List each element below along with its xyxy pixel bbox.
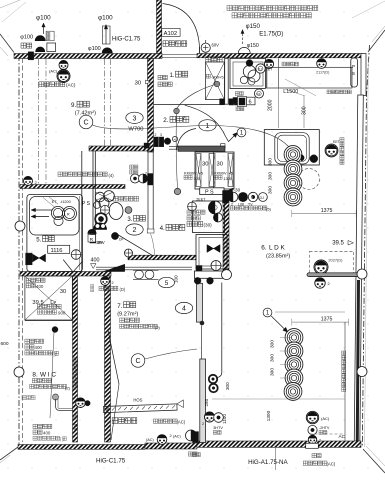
svg-text:30: 30 bbox=[60, 289, 66, 295]
right exterior wall band bbox=[354, 95, 363, 447]
ellipse 1 genkan bbox=[199, 120, 216, 131]
svg-text:R: R bbox=[67, 213, 70, 217]
svg-text:( ): ( ) bbox=[52, 351, 57, 356]
wic top wall bbox=[20, 272, 111, 277]
black square on band bbox=[196, 266, 202, 271]
shaft toilet west wall bbox=[92, 151, 94, 240]
right wall dark lower bbox=[357, 280, 358, 447]
vent dome 2 bbox=[36, 47, 45, 52]
toilet tank black dome bbox=[93, 223, 106, 230]
top-left boundary diagonals bbox=[0, 34, 14, 53]
kitchen black dot bbox=[246, 60, 253, 67]
bath shower circle big bbox=[51, 206, 64, 219]
svg-text:P S: P S bbox=[205, 190, 214, 196]
svg-text:φ100: φ100 bbox=[20, 35, 33, 41]
genkan west wall bbox=[148, 59, 154, 153]
svg-text:1116: 1116 bbox=[51, 248, 63, 254]
porch wall bbox=[157, 0, 162, 54]
washroom east wall bbox=[223, 191, 229, 272]
face big window bbox=[314, 260, 328, 274]
svg-text:1.: 1. bbox=[170, 73, 175, 79]
svg-text:3: 3 bbox=[133, 115, 137, 122]
toilet east wall bbox=[148, 152, 153, 232]
wic black dot leader bbox=[52, 327, 58, 333]
svg-text:1375: 1375 bbox=[321, 208, 333, 214]
svg-text:2: 2 bbox=[112, 281, 114, 285]
side panel label bbox=[327, 90, 331, 94]
svg-text:L1500: L1500 bbox=[283, 89, 298, 95]
genkan wall switches bbox=[154, 137, 159, 147]
conduit hall bbox=[176, 114, 177, 189]
face small right bbox=[308, 435, 316, 443]
cabinet strip left bbox=[196, 154, 201, 187]
kitchen sink circles bbox=[243, 65, 255, 77]
300 dim kitchen bbox=[303, 95, 305, 128]
svg-text:300: 300 bbox=[270, 340, 276, 348]
svg-text:2117(D): 2117(D) bbox=[316, 71, 330, 75]
svg-text:400: 400 bbox=[43, 430, 51, 435]
svg-text:KKB0V: KKB0V bbox=[184, 170, 197, 175]
svg-text:-t1200: -t1200 bbox=[60, 200, 71, 204]
vanity circle small bbox=[214, 213, 223, 222]
svg-text:38V: 38V bbox=[96, 241, 103, 245]
svg-text:3: 3 bbox=[160, 133, 162, 137]
washroom circles bottom bbox=[135, 270, 144, 279]
keshou makeita label bbox=[99, 286, 103, 290]
grid dots bbox=[8, 12, 9, 13]
svg-text:×5: ×5 bbox=[229, 170, 233, 175]
vanity unit box bbox=[193, 201, 225, 233]
bottom-left corner diagonal bbox=[0, 447, 18, 460]
toilet black dot DF bbox=[111, 232, 118, 239]
vanity mirror circle big bbox=[209, 201, 222, 214]
svg-text:φ100: φ100 bbox=[98, 15, 113, 22]
toilet north wall bbox=[89, 146, 154, 151]
entrance door leaf bbox=[199, 47, 201, 54]
svg-text:L08: L08 bbox=[238, 202, 244, 206]
wic chuudan label bbox=[22, 396, 26, 400]
svg-text:2: 2 bbox=[231, 202, 233, 206]
svg-text:×5: ×5 bbox=[199, 170, 203, 175]
svg-text:-30: -30 bbox=[234, 188, 241, 193]
svg-text:2000: 2000 bbox=[268, 99, 274, 111]
washroom cross circle west bbox=[188, 202, 197, 211]
bedroom7 door diagonal bbox=[108, 330, 119, 384]
face bottom bedroom7 bbox=[157, 435, 167, 445]
downlight ring 3 bbox=[284, 174, 302, 192]
cross circle on wall bbox=[125, 249, 133, 257]
entrance door swing arc bbox=[163, 4, 200, 48]
EET face kitchen right bbox=[325, 144, 338, 157]
S circle symbol bbox=[172, 136, 177, 141]
svg-text:60V: 60V bbox=[212, 43, 220, 48]
svg-text:DJ: DJ bbox=[260, 196, 265, 200]
grid bubble right low bbox=[357, 367, 367, 377]
svg-text:6.: 6. bbox=[261, 245, 267, 252]
island inner rounded square bbox=[275, 133, 309, 164]
genkan east wall bbox=[225, 58, 229, 104]
arrow from circled1 bbox=[271, 316, 286, 331]
cabinet outline bbox=[195, 152, 234, 189]
washer cross circle bbox=[211, 261, 221, 271]
circle C bedroom9 bbox=[79, 115, 93, 129]
1116 box label bbox=[48, 245, 70, 253]
wall end blob hall bbox=[148, 174, 154, 186]
cabinet strip right bbox=[228, 154, 233, 187]
shoe cabinet size label bbox=[207, 74, 211, 78]
genkan wall end blob bbox=[144, 143, 149, 148]
tenjou hokyou label bbox=[112, 418, 118, 424]
svg-text:4: 4 bbox=[182, 306, 186, 313]
switch below pair bbox=[233, 98, 238, 104]
svg-text:2EET: 2EET bbox=[196, 197, 206, 201]
svg-text:(D): (D) bbox=[120, 287, 126, 292]
circle 2HTV bbox=[308, 425, 317, 434]
phi100 arrow bbox=[43, 25, 45, 34]
svg-text:HiG-C1.75: HiG-C1.75 bbox=[96, 458, 126, 465]
face below rail bbox=[315, 278, 325, 288]
squiggle arrow 1 bbox=[225, 134, 236, 142]
vent dome 1 bbox=[35, 36, 45, 41]
S shelf lower block bbox=[33, 424, 37, 428]
svg-text:1300: 1300 bbox=[224, 177, 232, 181]
svg-text:5: 5 bbox=[165, 280, 169, 287]
svg-text:(30): (30) bbox=[204, 222, 213, 227]
toilet fixtures cluster bbox=[95, 192, 105, 202]
duct dashed pair bedroom9 bbox=[38, 59, 40, 185]
gray junction dot bbox=[214, 81, 220, 87]
leader from C to downlight bbox=[93, 125, 294, 154]
svg-text:DJ: DJ bbox=[258, 67, 262, 71]
bath unit outer box bbox=[27, 195, 83, 272]
wic east wall bbox=[73, 276, 78, 442]
kitchen DJ circle bbox=[256, 64, 265, 73]
leader C7 bbox=[145, 349, 197, 359]
svg-text:300: 300 bbox=[268, 158, 274, 166]
vent dome on wall bbox=[102, 48, 112, 53]
svg-text:P: P bbox=[352, 64, 355, 69]
shoe cabinet label bbox=[206, 57, 211, 62]
svg-text:600: 600 bbox=[1, 341, 9, 347]
duct arrow bbox=[105, 27, 107, 44]
wic tenjou label bbox=[32, 378, 36, 382]
svg-text:2: 2 bbox=[170, 434, 172, 438]
svg-text:φ100: φ100 bbox=[88, 46, 101, 52]
washroom bottom wall bbox=[194, 271, 229, 278]
right faint outer line bbox=[365, 60, 369, 447]
note text line1 bbox=[227, 6, 232, 11]
kitchen panel label bbox=[282, 62, 286, 66]
boxed 6 switch bbox=[247, 97, 256, 105]
kisetsu label bbox=[21, 43, 26, 48]
svg-text:2: 2 bbox=[202, 422, 204, 426]
hall-washroom door arc bbox=[177, 129, 197, 151]
face 3HTV black bbox=[205, 412, 215, 422]
svg-text:(AC): (AC) bbox=[173, 435, 182, 439]
circle C bedroom7 bbox=[131, 354, 145, 368]
face small AC bedroom9 corner bbox=[59, 61, 68, 70]
kisetsu kabe hokyou AC bottom bbox=[303, 461, 307, 465]
gray dot toilet bbox=[125, 207, 132, 214]
face 2 bedroom9 bottom bbox=[24, 177, 33, 186]
bracket below faces bbox=[306, 443, 319, 448]
toilet north label bbox=[113, 196, 118, 201]
1375 dim lower bbox=[292, 321, 349, 323]
cabinet top door bar bbox=[178, 146, 225, 151]
R box symbol bbox=[88, 229, 96, 233]
bath top wall bbox=[20, 185, 125, 189]
black boxes left toilet bbox=[90, 234, 96, 243]
grid bubble left mid bbox=[15, 221, 25, 231]
svg-text:DJ: DJ bbox=[256, 92, 260, 96]
svg-text:(2): (2) bbox=[155, 325, 161, 330]
label under black bbox=[192, 453, 196, 457]
1375 dim upper bbox=[292, 213, 356, 215]
toilet dark ring bbox=[95, 213, 107, 225]
LDK west wall lower bbox=[200, 359, 206, 443]
svg-text:6: 6 bbox=[249, 100, 252, 106]
black symbol bottom left ldk bbox=[193, 432, 199, 443]
circled 1 LDK bbox=[263, 308, 272, 317]
svg-text:2.: 2. bbox=[163, 117, 168, 124]
symbol row DJ circle bbox=[259, 193, 268, 202]
svg-text:P S: P S bbox=[82, 201, 91, 207]
symbol row halfblack bbox=[228, 192, 238, 202]
svg-text:HiG-A1.75-NA: HiG-A1.75-NA bbox=[248, 459, 288, 466]
top wall right bbox=[197, 54, 363, 58]
interior line down from 1375 bbox=[344, 322, 346, 442]
entrance door sill lines bbox=[162, 54, 197, 56]
wic conduit bbox=[56, 399, 74, 411]
shinsetsu label small bbox=[235, 92, 239, 96]
svg-text:300: 300 bbox=[270, 354, 276, 362]
toilet bowl bbox=[109, 203, 123, 220]
svg-text:E: E bbox=[251, 196, 253, 200]
svg-text:φ100: φ100 bbox=[36, 15, 51, 22]
svg-text:(AC): (AC) bbox=[49, 69, 58, 74]
svg-text:300: 300 bbox=[270, 368, 276, 376]
washroom door track bbox=[169, 145, 225, 147]
genkan door label bbox=[163, 41, 168, 47]
ellipse 4 bbox=[175, 302, 192, 313]
svg-text:8.: 8. bbox=[32, 372, 38, 379]
top-right corner diagonals bbox=[368, 30, 385, 52]
dashed rect window side bbox=[310, 251, 354, 275]
svg-text:(5): (5) bbox=[266, 206, 272, 211]
downlight ring 6 bbox=[285, 342, 303, 360]
bath shower circle 2 bbox=[63, 207, 77, 221]
bedroom7 tenjou bbox=[120, 318, 124, 323]
svg-text:1: 1 bbox=[206, 123, 210, 130]
2EV label bbox=[130, 165, 134, 169]
svg-text:φ150: φ150 bbox=[247, 43, 259, 49]
face big AC right bbox=[306, 411, 318, 423]
cabinet strip mid bbox=[209, 154, 215, 187]
svg-text:EET: EET bbox=[333, 140, 341, 144]
bottom-right corner diagonal bbox=[363, 449, 385, 473]
washroom south wall bbox=[128, 255, 196, 260]
svg-text:-2HTV: -2HTV bbox=[319, 426, 330, 430]
svg-text:(AC): (AC) bbox=[66, 82, 76, 87]
SHB label2 bbox=[37, 310, 41, 314]
svg-text:39.5: 39.5 bbox=[32, 300, 43, 306]
washer pan bbox=[196, 235, 227, 270]
curtain rail bar bbox=[307, 273, 361, 277]
S shelf lower 400 bbox=[33, 430, 37, 434]
leader bottom bbox=[275, 448, 277, 470]
ellipse 2 toilet bbox=[126, 224, 143, 235]
svg-text:HOS: HOS bbox=[133, 398, 142, 403]
svg-text:3HTV: 3HTV bbox=[213, 426, 223, 430]
svg-text:1300: 1300 bbox=[266, 410, 272, 421]
accent cross label bedroom9 bbox=[58, 172, 62, 176]
wic mid shelf line bbox=[25, 320, 72, 322]
svg-text:(AC): (AC) bbox=[327, 462, 336, 467]
door stop rings bbox=[209, 375, 217, 383]
downlight ring 9 bbox=[284, 383, 302, 401]
svg-text:700: 700 bbox=[74, 423, 79, 431]
svg-text:2: 2 bbox=[133, 227, 137, 234]
vent dome open on wall bbox=[238, 47, 250, 53]
hanger pipe lower bbox=[33, 436, 37, 440]
face big AC bedroom9 corner bbox=[57, 70, 70, 83]
WIC upper closet box bbox=[25, 276, 72, 320]
door jamb bbox=[221, 144, 225, 149]
svg-text:250: 250 bbox=[204, 398, 209, 406]
switch row on kitchen wall bbox=[220, 99, 225, 105]
white square symbol bbox=[47, 43, 56, 52]
kitchen face bbox=[264, 59, 273, 68]
symbol row black circle bbox=[238, 192, 247, 201]
island black dot 1 bbox=[301, 155, 304, 161]
conduit genkan wire bbox=[177, 85, 216, 110]
grid bubble washroom end bbox=[222, 270, 232, 280]
svg-text:(9.27m²): (9.27m²) bbox=[117, 311, 138, 317]
svg-text:(AC): (AC) bbox=[321, 416, 330, 421]
svg-text:(AC): (AC) bbox=[177, 420, 186, 425]
svg-text:2: 2 bbox=[155, 133, 157, 137]
svg-text:(23.85m²): (23.85m²) bbox=[266, 253, 290, 259]
svg-text:KKB0V: KKB0V bbox=[214, 170, 227, 175]
downlight ring 8 bbox=[285, 369, 303, 387]
svg-text:300: 300 bbox=[225, 382, 230, 390]
toilet door diagonal bbox=[118, 235, 156, 258]
downlight ring 5 bbox=[285, 329, 303, 347]
wic accent label bbox=[30, 384, 34, 388]
svg-text:30: 30 bbox=[135, 80, 141, 86]
SHB label bbox=[37, 304, 41, 308]
svg-text:300: 300 bbox=[268, 186, 274, 194]
ldk wall east line bbox=[221, 283, 223, 373]
step edge lines bbox=[96, 266, 192, 268]
shinsetsu bottom label bbox=[188, 452, 192, 456]
svg-text:4.: 4. bbox=[160, 225, 165, 232]
bottom wall left bbox=[18, 445, 145, 450]
right exterior wall top bbox=[361, 54, 366, 96]
svg-text:1375: 1375 bbox=[321, 317, 333, 323]
left inner wall line bbox=[22, 58, 24, 442]
svg-text:300: 300 bbox=[268, 172, 274, 180]
genkan step edge line bbox=[154, 104, 225, 106]
svg-text:400: 400 bbox=[36, 284, 44, 289]
bath small circle bbox=[54, 216, 63, 225]
phi150 dashed arrow bbox=[242, 31, 244, 44]
downlight ring 7 bbox=[285, 356, 303, 374]
island black dot 2 bbox=[310, 155, 318, 163]
gray dot hall bbox=[174, 188, 180, 194]
washer valve bbox=[207, 245, 214, 253]
svg-text:9.: 9. bbox=[71, 102, 76, 109]
duct rect bedroom9 top bbox=[103, 26, 111, 44]
PS shaft top right bbox=[351, 58, 358, 87]
svg-text:7.: 7. bbox=[117, 303, 122, 310]
svg-text:( ): ( ) bbox=[60, 437, 65, 442]
2000 dim bbox=[278, 59, 280, 128]
bath east wall bbox=[81, 151, 83, 272]
svg-text:C: C bbox=[83, 119, 88, 126]
bath arrows bbox=[33, 209, 52, 211]
A102 label box bbox=[162, 28, 180, 36]
gray junction dot genkan bbox=[174, 108, 180, 114]
dashed h line bottom right bbox=[310, 433, 346, 435]
kitchen exhaust vertical label bbox=[340, 138, 344, 165]
kisetsu bottom right bbox=[312, 453, 316, 457]
face washroom step bbox=[101, 277, 110, 286]
hanger pipe label bbox=[25, 351, 29, 355]
S shelf mid block bbox=[25, 339, 29, 343]
duct penetration black box bbox=[28, 52, 33, 60]
step wedge bbox=[104, 264, 125, 271]
dim ext line bottom bbox=[212, 398, 345, 400]
svg-text:30: 30 bbox=[217, 162, 223, 168]
counter top right bbox=[267, 67, 353, 88]
bath door fold bbox=[63, 260, 73, 272]
bedroom7 accent bbox=[120, 324, 124, 328]
svg-text:300: 300 bbox=[302, 106, 308, 115]
downlight ring 1 bbox=[284, 146, 302, 164]
svg-text:900: 900 bbox=[58, 311, 66, 316]
svg-text:A102: A102 bbox=[164, 31, 178, 37]
symbol row dot circle bbox=[248, 192, 257, 201]
svg-text:W I C: W I C bbox=[40, 372, 56, 379]
kitchen counter box bbox=[230, 58, 265, 88]
black dots ldk wall bottom bbox=[194, 277, 201, 284]
bottom wall right bbox=[197, 441, 361, 447]
kitchen counter inner rect bbox=[233, 62, 263, 86]
svg-text:400: 400 bbox=[91, 258, 100, 264]
small box duct label bbox=[46, 31, 54, 40]
ellipse 5 washroom bbox=[159, 277, 175, 287]
half black circle bottom bbox=[186, 430, 197, 441]
circle 3HTV bbox=[214, 413, 224, 423]
60V outlet circle bbox=[201, 43, 210, 52]
ceiling reinforce band bbox=[103, 400, 183, 413]
svg-text:W700: W700 bbox=[128, 127, 143, 133]
svg-text:2: 2 bbox=[319, 439, 321, 443]
S shelf label upper1 bbox=[26, 278, 30, 282]
kisetsu kabehokyo 2line bbox=[158, 75, 162, 79]
svg-text:φ150: φ150 bbox=[246, 23, 261, 30]
right boundary dash-dot line bbox=[362, 45, 369, 447]
kisetsu kabe hokyou AC text bbox=[39, 82, 44, 87]
svg-text:39.5: 39.5 bbox=[332, 241, 344, 247]
top wall bbox=[14, 54, 162, 59]
note text line2 bbox=[232, 13, 237, 18]
svg-text:(2): (2) bbox=[65, 386, 71, 391]
svg-text:(AC): (AC) bbox=[146, 438, 155, 442]
washroom east wall top blob bbox=[223, 191, 229, 204]
downlight ring 2 bbox=[284, 160, 302, 178]
